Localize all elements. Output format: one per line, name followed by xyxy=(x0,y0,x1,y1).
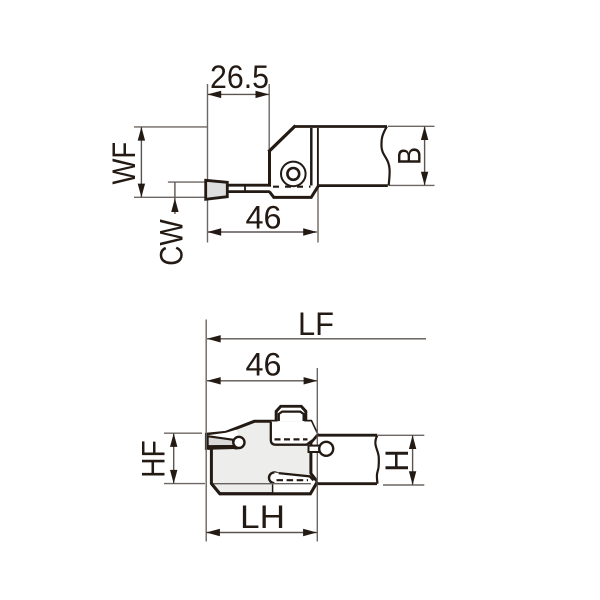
HF top extension line xyxy=(164,432,202,434)
arrowhead WF bottom xyxy=(138,184,145,198)
tip bottom arc under circle xyxy=(234,443,245,448)
shank top edge (top view) xyxy=(294,125,388,128)
arrowhead HF top xyxy=(170,433,177,447)
lower clamp top edge xyxy=(279,473,314,480)
head bottom contour (top view) xyxy=(269,186,318,198)
arrowhead H top xyxy=(409,435,416,449)
shank white area (side view) xyxy=(318,437,377,483)
extension line 46/LH right (side view) xyxy=(316,368,318,542)
svg-text:H: H xyxy=(379,449,415,472)
svg-text:26.5: 26.5 xyxy=(210,59,269,95)
screw head white interior xyxy=(278,408,305,421)
shank break wavy line (side view) xyxy=(375,435,379,483)
hidden dashed line (top view) xyxy=(273,186,311,188)
lower clamp dashed line xyxy=(277,479,309,481)
tip clamp circle xyxy=(233,437,244,448)
head left edge (top view) xyxy=(268,150,271,187)
shank top edge (side view) xyxy=(317,434,377,437)
arrowhead HF bottom xyxy=(170,470,177,484)
pin bar xyxy=(309,446,323,452)
lower clamp left edge xyxy=(272,484,274,493)
tip bottom internal line xyxy=(208,446,236,449)
arrowhead 46 left xyxy=(208,228,222,235)
dimension line H xyxy=(412,435,414,485)
arrowhead 46 right xyxy=(303,228,317,235)
extension line left (26.5/46 datum) xyxy=(207,84,209,243)
extension line 26.5 right xyxy=(268,84,270,151)
blade clearance white wedge xyxy=(207,430,239,440)
WF top extension line xyxy=(134,126,208,128)
dimension line B xyxy=(424,126,426,185)
svg-text:B: B xyxy=(392,147,428,165)
shank bottom thin line through head xyxy=(213,483,312,485)
clamp line 2 (top view) xyxy=(317,128,319,186)
lower clamp pivot circle xyxy=(269,472,280,483)
arrowhead LF left xyxy=(207,335,221,342)
svg-text:LH: LH xyxy=(240,499,285,535)
upper clamp outline xyxy=(271,422,318,445)
arrowhead 26.5 left xyxy=(208,91,222,98)
body bottom edge redraw xyxy=(211,482,317,494)
dimension line LH xyxy=(206,532,317,534)
head left slope (top view) xyxy=(269,126,296,152)
arrowhead B bottom xyxy=(421,172,428,186)
svg-text:LF: LF xyxy=(298,306,334,342)
svg-text:WF: WF xyxy=(106,142,142,185)
dimension line 46 (top view) xyxy=(208,231,317,233)
screw head inner bevel xyxy=(279,412,304,421)
HF bottom extension line xyxy=(164,483,205,485)
arrowhead LH right xyxy=(303,529,317,536)
clamp line 1 (top view) xyxy=(310,128,313,186)
B top extension line xyxy=(388,125,435,127)
extension line left datum (side view) xyxy=(205,320,207,542)
body silhouette (side view) xyxy=(206,406,317,493)
svg-text:46: 46 xyxy=(246,200,282,236)
shank bottom edge (top view) xyxy=(318,184,387,187)
H bottom extension line xyxy=(383,484,424,486)
arrowhead 46 right (side view) xyxy=(304,377,318,384)
blade tick xyxy=(244,184,246,192)
svg-text:46: 46 xyxy=(246,346,282,382)
svg-text:CW: CW xyxy=(154,219,190,266)
WF bottom extension line xyxy=(134,196,208,198)
arrowhead CW up xyxy=(171,198,178,212)
insert tip gray quad xyxy=(208,436,235,446)
extension line 46 right (top view) xyxy=(317,188,319,243)
shank bottom edge (side view) xyxy=(317,482,377,485)
CW leader line xyxy=(174,182,176,214)
blade top line (top view) xyxy=(227,184,270,187)
shank break wavy line (top view) xyxy=(381,126,389,185)
pin ball xyxy=(319,442,333,456)
arrowhead WF top xyxy=(138,127,145,141)
dimension line LF xyxy=(207,338,426,340)
dimension line 26.5 xyxy=(208,93,270,95)
insert screw inner circle xyxy=(287,168,299,180)
CW top tick line xyxy=(168,181,206,183)
dimension line 46 (side view) xyxy=(207,380,317,382)
arrowhead 26.5 right xyxy=(256,91,270,98)
arrowhead 46 left (side view) xyxy=(207,377,221,384)
svg-text:HF: HF xyxy=(136,440,172,478)
dimension line HF xyxy=(173,433,175,483)
upper clamp white region xyxy=(271,422,318,445)
insert trapezoid (top view) xyxy=(206,180,228,199)
upper clamp dashed line xyxy=(275,438,308,440)
lower clamp white region xyxy=(273,472,317,493)
arrowhead B top xyxy=(421,126,428,140)
insert screw outer circle xyxy=(281,162,306,187)
blade bottom line (top view) xyxy=(227,190,269,193)
dimension line WF xyxy=(140,127,142,197)
B bottom extension line xyxy=(389,184,435,186)
H top extension line xyxy=(378,434,424,436)
arrowhead LH left xyxy=(206,529,220,536)
arrowhead H bottom xyxy=(409,471,416,485)
